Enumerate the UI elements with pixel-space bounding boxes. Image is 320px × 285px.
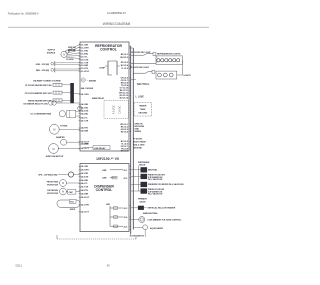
footer date [16,263,23,267]
svg-text:J4-7 OR: J4-7 OR [81,119,89,122]
svg-text:LINE: LINE [102,178,107,180]
svg-text:DOOR SWITCH: DOOR SWITCH [130,236,145,238]
svg-text:J2-3: J2-3 [123,208,128,210]
ground connector GND [36,61,80,66]
neutral bus wire [130,46,132,235]
U1 left pin labels J4 [79,93,90,150]
svg-text:J2-5: J2-5 [123,226,128,228]
water valve V4 [131,188,165,195]
svg-text:WIRES: WIRES [135,131,142,133]
U2 left pin labels J4 [79,165,90,213]
svg-text:WH J2-2: WH J2-2 [120,57,129,59]
svg-text:HINGE HEATER W/FC RD: HINGE HEATER W/FC RD [28,100,52,103]
svg-text:RAIL & GRD: RAIL & GRD [133,144,145,147]
svg-text:WIRING DIAGRAM: WIRING DIAGRAM [103,22,131,26]
svg-text:M: M [53,128,55,132]
svg-text:DISPENSER: DISPENSER [138,162,150,164]
U1 ground lug symbol [81,78,97,82]
U1 right pin labels J2 [119,54,129,100]
svg-text:SPD - CW WELD (W): SPD - CW WELD (W) [38,175,57,177]
jumper wiring label [47,50,56,55]
svg-text:J2-2: J2-2 [123,178,128,180]
water valve V3 [131,182,184,187]
mullion heater R5 [131,206,176,210]
front motor M5 [47,180,80,187]
svg-text:RD J3-4: RD J3-4 [121,130,129,133]
svg-text:J2-1: J2-1 [123,170,128,172]
ice maker mold connector [23,101,80,106]
svg-text:J2-4: J2-4 [123,216,128,219]
neutral net label [137,82,150,86]
svg-text:LGHB2869LF7: LGHB2869LF7 [107,11,127,15]
svg-text:VALVE: VALVE [139,200,146,203]
U1 bottom-left pin row [81,87,94,90]
svg-text:YL J2-5: YL J2-5 [121,68,129,70]
svg-text:TANK: TANK [140,108,146,111]
svg-text:WATER: WATER [139,105,147,108]
svg-text:02/11: 02/11 [16,263,23,267]
U2 to bus wires [129,166,131,229]
main relay label [92,97,105,100]
header title WIRING DIAGRAM [103,22,131,26]
svg-text:— AB5080: — AB5080 [87,79,98,82]
svg-text:DR FAN BK: DR FAN BK [47,189,58,192]
line bus wire [132,48,134,230]
heater R3 [28,99,71,103]
svg-text:VERTICAL MULLION HEATER: VERTICAL MULLION HEATER [147,207,175,210]
svg-text:J1-5 YL: J1-5 YL [81,56,89,58]
U2 internal LED tree [106,204,128,228]
svg-text:FF DOOR HEATER W/FC BK: FF DOOR HEATER W/FC BK [25,84,52,87]
svg-text:L LINE: L LINE [136,94,145,98]
svg-text:N: N [63,53,65,57]
svg-text:LOW AMBIENT ICE GATE CONTROL: LOW AMBIENT ICE GATE CONTROL [147,219,182,222]
svg-text:DC CONDENSER FAN: DC CONDENSER FAN [31,113,52,116]
svg-text:COMP: COMP [99,67,106,69]
neutral connector NEU [36,68,80,73]
svg-text:NEU - ICM (W): NEU - ICM (W) [36,70,49,72]
line relay component inside U1 [83,144,110,150]
svg-text:RD J2-3: RD J2-3 [121,62,129,64]
svg-text:FZ DOOR HEATER W/FC WH: FZ DOOR HEATER W/FC WH [25,92,52,95]
svg-text:DAMPER: DAMPER [56,136,65,139]
svg-text:BU J2-14: BU J2-14 [120,96,129,99]
svg-text:J1-7 OR: J1-7 OR [81,62,89,64]
svg-text:FREEZER ICE WATER FILL VALVE W: FREEZER ICE WATER FILL VALVE WH [148,183,184,186]
fz door light switch S2 [130,67,155,79]
lights box edge ticks [156,57,158,62]
svg-text:J4-12 VT: J4-12 VT [81,211,90,214]
svg-text:CONTROL: CONTROL [100,48,117,52]
svg-text:NEUTRAL: NEUTRAL [137,82,150,86]
svg-text:J1-6 GN: J1-6 GN [81,59,89,61]
svg-text:BK J2-1: BK J2-1 [121,54,129,56]
svg-text:Publication No. 09082889-0: Publication No. 09082889-0 [8,12,39,15]
power source node N [61,50,69,57]
svg-text:J4-4 GN: J4-4 GN [81,175,89,178]
svg-text:EVAP FAN MOTOR: EVAP FAN MOTOR [46,155,64,158]
dispenser control board U2 [80,164,129,232]
svg-text:J1-1 BK: J1-1 BK [81,44,89,46]
U1 to bus wires [129,55,131,150]
header publication number [8,12,39,15]
svg-text:MAIN RELAY: MAIN RELAY [92,97,105,100]
svg-text:J4-9 BR: J4-9 BR [81,129,89,132]
compressor relay K1 inside U1 [99,61,120,75]
primary valve label [138,197,148,203]
board part number caption [96,157,119,161]
svg-text:J4-7 OR: J4-7 OR [81,186,89,189]
U2 line input 1 [102,170,128,172]
damper motor M3 [56,136,80,145]
svg-text:FZ FAN: FZ FAN [60,124,67,127]
bus top connections [129,46,133,48]
svg-text:M: M [62,191,64,194]
header rule [8,26,209,28]
svg-text:TCO: TCO [70,202,75,204]
svg-text:J4A-1 WH-BK: J4A-1 WH-BK [81,87,94,90]
door ground note [133,139,146,150]
svg-text:GROUND: GROUND [138,112,147,114]
dc condenser fan M1 [31,110,80,117]
svg-text:FF DOOR,: FF DOOR, [133,139,143,141]
svg-text:J1-3 RD: J1-3 RD [81,50,89,52]
svg-text:J4-2 BK: J4-2 BK [81,103,89,106]
svg-text:J1-10 GY: J1-10 GY [81,71,90,73]
valve feed wire [138,166,140,191]
svg-text:J4-6 YL: J4-6 YL [81,182,89,185]
main neutral label [143,212,159,215]
water valve V2 [131,174,166,181]
U1 right pin labels J3 [120,124,129,153]
svg-text:J4-11 PK: J4-11 PK [81,203,90,206]
svg-text:J1-9 TN: J1-9 TN [81,68,89,70]
svg-text:LINE RELAY: LINE RELAY [94,147,106,150]
svg-text:J4-1 BK: J4-1 BK [81,165,89,168]
svg-text:SOURCE: SOURCE [47,52,56,54]
svg-text:FZ DOOR SW. LIGHT: FZ DOOR SW. LIGHT [130,67,150,69]
svg-text:SUPPLY: SUPPLY [47,50,55,52]
svg-text:M: M [62,182,64,185]
svg-text:J1-8 BR: J1-8 BR [81,65,89,67]
svg-text:J1-4 BU: J1-4 BU [81,52,89,55]
refrigerator lights L1 [156,53,182,65]
svg-text:J4-5 BU: J4-5 BU [81,112,89,115]
svg-text:J4-10 GY: J4-10 GY [81,196,90,199]
svg-text:VIA RAMP CONNECT SCREW: VIA RAMP CONNECT SCREW [33,80,61,83]
door fan motor M6 [47,188,80,195]
heater group note [33,80,61,83]
svg-text:GROUND: GROUND [133,148,142,150]
svg-text:MAIN NEUTRAL: MAIN NEUTRAL [143,212,159,215]
line net label [136,94,145,98]
svg-text:BR J3-9: BR J3-9 [121,151,129,153]
ff door light switch S1 [131,52,156,63]
svg-text:FRONT FAN: FRONT FAN [47,180,59,183]
svg-text:NEUTRAL: NEUTRAL [148,169,158,172]
ground wires note [135,124,145,134]
svg-text:BODY, HINGE: BODY, HINGE [133,142,146,144]
refrigerator control board U1 [80,42,129,151]
svg-text:4.5 VDC: 4.5 VDC [113,105,116,114]
svg-text:FILL VALVE 1W: FILL VALVE 1W [148,193,162,196]
heater connector bar [70,83,80,103]
svg-text:LINE: LINE [102,170,107,172]
svg-text:FILL VALVE 2W: FILL VALVE 2W [148,178,162,181]
wires from N to U1 [66,44,80,61]
svg-text:LIGHTS: LIGHTS [183,75,191,77]
dispenser valve label [138,162,150,167]
freezer lights L2 [156,60,191,79]
svg-text:PRIMARY: PRIMARY [138,197,148,200]
box1 edge grommet T [78,106,82,110]
svg-text:J4-8 TN: J4-8 TN [81,127,89,130]
footer page number [107,263,110,267]
svg-text:J4-1 WH: J4-1 WH [81,93,89,96]
U2 line input 2 [102,176,128,180]
heater R2 [25,91,71,95]
svg-text:J4-3 RD: J4-3 RD [81,172,89,175]
svg-text:LINE: LINE [84,144,89,146]
svg-text:MOTOR 2W: MOTOR 2W [47,193,58,195]
door switch dashed wire [57,235,145,239]
speed control connector [38,172,80,177]
svg-text:VALVE: VALVE [139,164,146,167]
heater R1 [25,83,70,87]
svg-text:T8-GRN: T8-GRN [66,59,74,61]
svg-text:J4-6 YL: J4-6 YL [81,116,89,119]
svg-text:M: M [52,147,54,151]
defrost heater tube R4 [57,200,80,211]
svg-text:GND - ICM (W): GND - ICM (W) [36,64,50,66]
personality jumper dashed box inside U1 [104,101,129,119]
evap fan motor M4 [46,144,80,159]
svg-text:34: 34 [107,263,110,267]
svg-text:19F2100-** V5: 19F2100-** V5 [96,157,119,161]
svg-text:J4-8 TN: J4-8 TN [81,189,89,192]
water valve V1 [131,167,158,172]
svg-text:AQUA SAVER: AQUA SAVER [150,227,163,230]
svg-text:J4-5 BU: J4-5 BU [81,179,89,182]
water tank ground dashed box [134,103,152,116]
svg-text:CONTROL: CONTROL [96,188,113,192]
svg-text:CAP: CAP [69,191,74,194]
header model number [107,11,127,15]
aqua saver switch S3 [133,225,163,237]
svg-text:13 VDC: 13 VDC [119,105,122,114]
svg-text:J4-2 WH: J4-2 WH [81,169,89,172]
svg-text:BU J2-4: BU J2-4 [121,64,129,67]
svg-text:ICE MAKER MOLD FC (W): ICE MAKER MOLD FC (W) [23,102,48,105]
svg-text:DEFR: DEFR [70,209,76,211]
svg-text:BLK-JA: BLK-JA [68,49,76,52]
ice gate motor M7 [131,217,182,223]
svg-text:REFRIGERATOR LIGHTS: REFRIGERATOR LIGHTS [157,53,181,56]
freezer fan motor M2 [49,124,80,134]
svg-text:MOTOR 2W: MOTOR 2W [47,184,58,186]
svg-text:J1-2 WH: J1-2 WH [81,47,89,49]
svg-text:J4-4 GN: J4-4 GN [81,109,89,112]
svg-text:WHT-JA: WHT-JA [68,46,76,49]
U1 left pin labels J1 [79,44,90,73]
svg-text:J4-9 BR: J4-9 BR [81,192,89,195]
